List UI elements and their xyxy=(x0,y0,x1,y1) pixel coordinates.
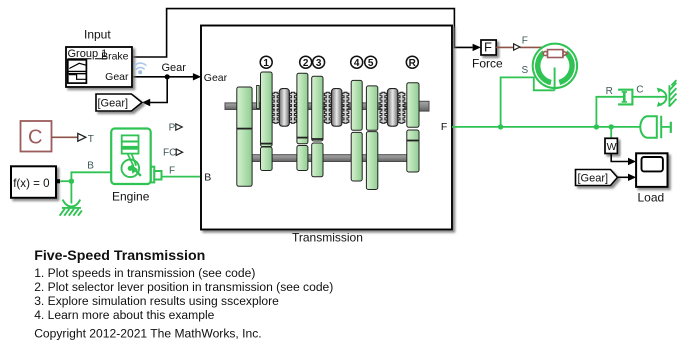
svg-text:R: R xyxy=(409,58,417,69)
PS connector on source xyxy=(543,50,567,58)
port triangle T xyxy=(78,133,86,141)
gear 5 lower xyxy=(366,132,377,190)
arrowhead into Force block xyxy=(473,44,481,51)
svg-text:C: C xyxy=(28,126,42,148)
svg-text:Gear: Gear xyxy=(162,62,187,74)
svg-text:F: F xyxy=(169,166,175,177)
clutch pack A xyxy=(272,89,296,127)
svg-text:B: B xyxy=(87,160,94,171)
svg-text:[Gear]: [Gear] xyxy=(98,98,129,110)
wire From to scope xyxy=(618,176,629,178)
wire main F line xyxy=(452,126,640,128)
transmission icon: upper shaft output stub xyxy=(413,101,429,111)
svg-text:S: S xyxy=(522,65,529,76)
gear input pair G0 xyxy=(237,87,252,186)
svg-text:[Gear]: [Gear] xyxy=(578,172,609,184)
svg-text:Force: Force xyxy=(472,57,503,71)
svg-text:T: T xyxy=(88,134,94,145)
streaming wifi icon xyxy=(135,63,146,69)
block Goto [Gear] xyxy=(96,94,142,111)
svg-text:W: W xyxy=(607,141,617,153)
block W sensor xyxy=(605,138,617,153)
wire engine F to transmission B xyxy=(162,176,202,178)
junction dot Gear xyxy=(165,74,170,79)
svg-text:1. Plot speeds in transmission: 1. Plot speeds in transmission (see code… xyxy=(34,266,255,280)
svg-text:4. Learn more about this examp: 4. Learn more about this example xyxy=(34,308,214,322)
ground rotational reference xyxy=(60,200,82,216)
svg-text:Copyright 2012-2021 The MathWo: Copyright 2012-2021 The MathWorks, Inc. xyxy=(34,327,261,341)
block Scope Load xyxy=(636,153,667,204)
gear 1 lower xyxy=(261,147,273,171)
gear 5 upper xyxy=(366,86,377,130)
svg-text:2: 2 xyxy=(303,58,309,69)
svg-text:Engine: Engine xyxy=(112,190,150,204)
translational reference clamp xyxy=(659,90,666,105)
svg-text:C: C xyxy=(636,84,643,95)
svg-text:3. Explore simulation results: 3. Explore simulation results using ssce… xyxy=(34,294,279,308)
wire Gear signal xyxy=(132,77,193,103)
svg-text:Gear: Gear xyxy=(204,72,228,84)
svg-text:B: B xyxy=(204,172,211,184)
wire to W sensor xyxy=(610,127,612,138)
gear 4 upper xyxy=(351,80,362,130)
svg-text:4: 4 xyxy=(354,58,360,69)
transmission icon: upper shaft xyxy=(225,103,413,110)
svg-text:2. Plot selector lever positio: 2. Plot selector lever position in trans… xyxy=(34,280,333,294)
gear R lower xyxy=(407,130,419,172)
svg-text:Brake: Brake xyxy=(101,51,129,63)
synchronizer thin bar xyxy=(257,86,260,109)
svg-text:Input: Input xyxy=(84,28,111,42)
wire damper C to reference xyxy=(632,96,667,98)
gear R upper xyxy=(407,83,419,128)
block C (controller) xyxy=(21,121,52,152)
gear 2 lower xyxy=(297,146,308,171)
wire source S to F line xyxy=(501,77,555,127)
block Input (Signal Builder) xyxy=(66,28,132,87)
svg-text:F: F xyxy=(441,121,447,133)
force source (ideal force source) xyxy=(533,44,577,91)
block Engine xyxy=(111,129,151,185)
gear 4 lower xyxy=(351,132,362,181)
svg-text:f(x) = 0: f(x) = 0 xyxy=(13,177,49,190)
junction dots F line xyxy=(498,124,503,129)
svg-text:Five-Speed Transmission: Five-Speed Transmission xyxy=(34,248,205,264)
wire PS C to T xyxy=(52,136,78,138)
gear 1 upper xyxy=(261,72,273,147)
damper xyxy=(618,90,632,105)
svg-text:R: R xyxy=(606,86,613,97)
block Transmission subsystem xyxy=(201,26,452,245)
gear 3 lower xyxy=(312,143,323,177)
clutch pack B xyxy=(324,89,349,127)
svg-text:3: 3 xyxy=(316,58,322,69)
wire Brake signal (Input to Force) xyxy=(132,9,473,57)
mass block xyxy=(640,116,670,139)
svg-text:Transmission: Transmission xyxy=(292,231,363,245)
junction dot solver node xyxy=(69,179,74,184)
block From [Gear] xyxy=(576,170,618,186)
arrowhead into Goto [Gear] xyxy=(142,99,150,106)
gear 3 upper xyxy=(312,76,323,141)
wire W to scope xyxy=(611,154,628,162)
transmission icon: lower shaft xyxy=(244,155,408,162)
wire PS Force to source xyxy=(496,46,513,48)
svg-text:Load: Load xyxy=(638,190,665,204)
wire solver to engine B and ground xyxy=(60,172,111,203)
block Force (converter) xyxy=(472,40,503,71)
svg-text:F: F xyxy=(522,35,528,46)
port triangle F xyxy=(514,44,520,50)
engine right port connector xyxy=(151,167,162,183)
svg-text:P: P xyxy=(169,123,176,134)
svg-text:1: 1 xyxy=(263,58,269,69)
clutch pack C xyxy=(380,89,405,127)
block Solver f(x)=0 xyxy=(11,166,60,198)
arrowhead into Transmission Gear port xyxy=(193,73,201,80)
svg-text:F: F xyxy=(484,40,492,55)
wire to damper R xyxy=(596,97,623,127)
circled gear numbers xyxy=(260,56,418,69)
svg-text:Gear: Gear xyxy=(105,71,129,83)
svg-text:5: 5 xyxy=(368,58,374,69)
gear 2 upper xyxy=(297,73,308,144)
translational reference wall hatches xyxy=(669,80,676,107)
svg-text:FC: FC xyxy=(163,148,176,159)
